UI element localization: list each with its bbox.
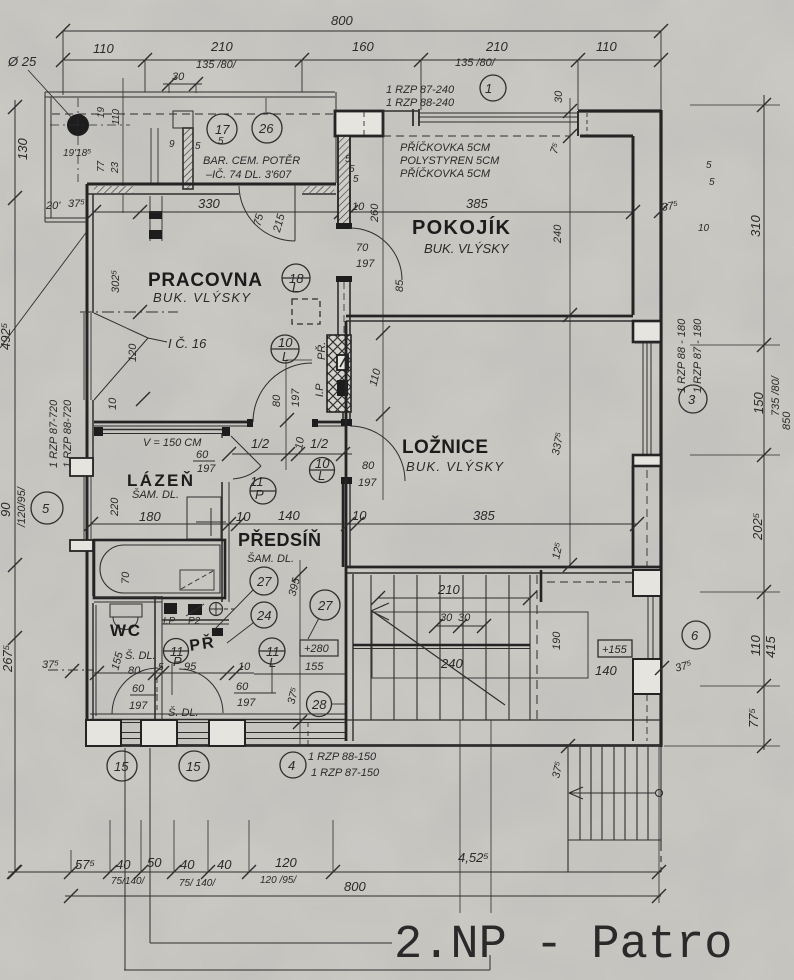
svg-text:80: 80: [128, 665, 141, 677]
svg-text:210: 210: [210, 39, 233, 54]
svg-text:30: 30: [172, 71, 185, 83]
dash-dot line pracovna: [80, 311, 178, 313]
svg-text:LÁZEŇ: LÁZEŇ: [127, 471, 195, 490]
dim line 330 / 385: [87, 205, 640, 219]
svg-text:40: 40: [217, 857, 232, 872]
svg-text:37⁵: 37⁵: [42, 659, 59, 671]
stairwell west wall: [346, 321, 353, 741]
svg-text:PŘÍČKOVKA 5CM: PŘÍČKOVKA 5CM: [400, 141, 491, 154]
svg-text:75/ 140/: 75/ 140/: [179, 878, 216, 889]
svg-text:197: 197: [290, 388, 302, 407]
svg-text:5: 5: [353, 174, 359, 185]
svg-text:160: 160: [352, 39, 374, 54]
svg-text:10: 10: [238, 661, 251, 673]
svg-text:4,52⁵: 4,52⁵: [458, 850, 489, 865]
pracovna door swing: [253, 363, 312, 422]
balcony door swing: [239, 186, 295, 241]
svg-text:40: 40: [180, 857, 195, 872]
svg-text:17: 17: [215, 122, 230, 137]
svg-text:+280: +280: [304, 643, 330, 655]
svg-text:240: 240: [552, 224, 564, 244]
svg-text:5: 5: [218, 136, 224, 147]
loznice south wall: [346, 567, 661, 573]
svg-text:BUK. VLÝSKY: BUK. VLÝSKY: [153, 290, 251, 305]
top dimension line 800: [56, 24, 668, 110]
svg-text:9: 9: [169, 139, 175, 150]
right edge verticals to bottom dims: [658, 747, 660, 903]
wire leader diag bottom-left of balcony: [0, 230, 88, 348]
leader lines to title: [124, 748, 490, 970]
vertical dim ext x=300 (395/37.5): [293, 560, 307, 745]
svg-text:37⁵: 37⁵: [68, 198, 85, 210]
small slab lines left of wall at y220: [45, 217, 87, 219]
svg-text:30: 30: [553, 90, 565, 103]
svg-text:L: L: [282, 349, 289, 364]
svg-text:WC: WC: [110, 621, 142, 640]
top-right section outer wall: [383, 109, 661, 747]
svg-text:BAR. CEM. POTĚR: BAR. CEM. POTĚR: [203, 154, 300, 167]
svg-text:197: 197: [129, 700, 148, 712]
lazen fixtures: washbasin: [187, 497, 226, 539]
WC room walls: [96, 596, 162, 719]
bottom dim line y=872: [7, 820, 666, 879]
svg-text:220: 220: [109, 497, 121, 517]
svg-text:10: 10: [278, 335, 293, 350]
svg-text:Š. DL.: Š. DL.: [168, 706, 199, 719]
landing wall stub: [540, 570, 543, 602]
left vertical dimension line: [8, 100, 22, 879]
svg-text:1/2: 1/2: [251, 436, 270, 451]
svg-text:Ø 25: Ø 25: [7, 54, 37, 69]
stub head: [173, 111, 193, 128]
svg-text:1 RZP 87-720: 1 RZP 87-720: [48, 399, 60, 468]
svg-text:210: 210: [485, 39, 508, 54]
svg-text:155: 155: [305, 661, 324, 673]
interior dim line y=524 (180/10/140/10/385): [84, 517, 644, 531]
svg-text:BUK. VLÝSKY: BUK. VLÝSKY: [424, 241, 510, 256]
svg-text:110: 110: [748, 635, 763, 656]
pokojik partition wall (west, layered): [336, 136, 352, 336]
svg-text:140: 140: [278, 508, 300, 523]
block A top wall piece: [335, 111, 383, 136]
svg-text:LOŽNICE: LOŽNICE: [402, 436, 490, 458]
svg-text:PŘÍČKOVKA 5CM: PŘÍČKOVKA 5CM: [400, 167, 491, 180]
svg-text:10: 10: [352, 201, 365, 213]
svg-text:10: 10: [352, 508, 367, 523]
svg-text:135 /80/: 135 /80/: [455, 57, 496, 69]
svg-text:/120/95/: /120/95/: [16, 486, 28, 528]
entry door swings: [112, 668, 158, 714]
svg-text:L: L: [318, 468, 325, 483]
window in north wall: [418, 112, 578, 114]
top dimension row 110/210/160/210/110: [56, 53, 668, 110]
pracovna window direction diagonals: [94, 313, 148, 338]
bottom inner wall: [90, 714, 661, 723]
svg-text:80: 80: [271, 394, 283, 407]
svg-text:385: 385: [466, 196, 488, 211]
right vertical dimension line: [654, 95, 780, 753]
svg-text:120: 120: [275, 855, 297, 870]
svg-text:77⁵: 77⁵: [746, 708, 761, 728]
svg-text:197: 197: [197, 463, 216, 475]
bathtub: [94, 540, 225, 598]
leader lines from ref circles: [214, 590, 345, 704]
svg-text:260: 260: [369, 203, 381, 223]
svg-text:10: 10: [107, 397, 119, 410]
svg-text:20': 20': [45, 200, 61, 212]
svg-text:90: 90: [0, 502, 13, 517]
svg-text:ŠAM. DL.: ŠAM. DL.: [132, 488, 179, 501]
svg-text:5: 5: [158, 662, 164, 673]
svg-text:80: 80: [362, 460, 375, 472]
svg-text:110: 110: [93, 41, 114, 56]
stair going line with arrow: [371, 603, 505, 705]
svg-text:40: 40: [116, 857, 131, 872]
chimney flue block (hatched): [327, 335, 351, 412]
svg-text:19: 19: [96, 106, 107, 118]
external stair flight: [568, 747, 661, 872]
svg-text:27: 27: [256, 574, 272, 589]
svg-text:POKOJÍK: POKOJÍK: [412, 216, 512, 239]
pokojik/loznice dividing wall: [346, 316, 633, 321]
svg-text:800: 800: [344, 879, 366, 894]
bottom dim line y=896 (800): [64, 889, 666, 903]
svg-text:L: L: [269, 655, 276, 670]
WC toilet: [110, 604, 142, 617]
svg-text:197: 197: [237, 697, 256, 709]
svg-text:I Č. 16: I Č. 16: [168, 336, 207, 351]
svg-text:P: P: [255, 487, 264, 502]
bottom outer wall: [87, 733, 661, 746]
svg-text:15: 15: [186, 759, 201, 774]
svg-text:77: 77: [96, 160, 107, 172]
svg-text:15: 15: [114, 759, 129, 774]
stair mid landing line: [353, 644, 530, 647]
svg-text:1: 1: [485, 81, 492, 96]
svg-text:PRACOVNA: PRACOVNA: [148, 270, 264, 291]
vertical ext line x=383: [382, 111, 384, 500]
svg-text:70: 70: [120, 571, 132, 584]
svg-text:850: 850: [781, 411, 793, 430]
svg-text:50: 50: [147, 855, 162, 870]
svg-text:28: 28: [311, 697, 327, 712]
svg-text:180: 180: [139, 509, 161, 524]
stair east wall window: [633, 570, 661, 741]
svg-text:27: 27: [317, 598, 333, 613]
svg-text:POLYSTYREN 5CM: POLYSTYREN 5CM: [400, 155, 500, 167]
svg-text:5: 5: [706, 160, 712, 171]
pracovna west window: [83, 313, 85, 400]
dim line y=673 (80/5/95/10): [48, 664, 346, 680]
footing piers: [86, 720, 308, 748]
svg-text:I.P: I.P: [163, 616, 176, 627]
stair flight separation dashed: [536, 575, 538, 720]
svg-text:24: 24: [256, 608, 271, 623]
svg-text:492⁵: 492⁵: [0, 322, 13, 350]
svg-text:75/140/: 75/140/: [111, 876, 146, 887]
60/197 fraction bars + leaders: [130, 664, 276, 695]
leader O25: [28, 70, 71, 117]
svg-text:26: 26: [258, 121, 274, 136]
lazen top wall: [94, 427, 230, 436]
svg-text:85: 85: [394, 279, 406, 292]
svg-text:735 /80/: 735 /80/: [770, 375, 782, 416]
PR pantry walls: [162, 620, 229, 636]
circled reference marks: [31, 75, 710, 781]
svg-text:1 RZP 88 - 180: 1 RZP 88 - 180: [676, 318, 688, 393]
mini dim 30 over stub: [162, 77, 203, 93]
svg-text:60: 60: [132, 683, 145, 695]
svg-text:BUK. VLÝSKY: BUK. VLÝSKY: [406, 459, 504, 474]
svg-text:202⁵: 202⁵: [750, 512, 765, 541]
svg-text:190: 190: [551, 631, 563, 650]
svg-text:1 RZP 88-150: 1 RZP 88-150: [308, 751, 377, 763]
balcony dashed line: [52, 113, 336, 115]
column O25 (filled): [67, 114, 89, 136]
dim 30/30 stairs: [429, 619, 491, 633]
dashed square pracovna: [292, 299, 320, 324]
svg-text:150: 150: [751, 392, 766, 414]
balcony partition stub (hatched): [183, 128, 193, 189]
svg-text:1 RZP 87-150: 1 RZP 87-150: [311, 767, 380, 779]
svg-text:110: 110: [111, 109, 122, 125]
svg-text:130: 130: [15, 138, 30, 160]
thin jamb lines in balcony: [150, 128, 152, 183]
svg-text:Š. DL.: Š. DL.: [125, 649, 156, 662]
svg-text:V = 150 CM: V = 150 CM: [143, 437, 202, 449]
svg-text:197: 197: [356, 258, 375, 270]
extension vertical x=123 in balcony: [122, 78, 124, 213]
svg-text:6: 6: [691, 628, 699, 643]
balcony slab outline: [45, 92, 336, 222]
svg-text:1 RZP 87-240: 1 RZP 87-240: [386, 84, 455, 96]
svg-text:120: 120: [127, 343, 139, 362]
svg-text:P2: P2: [188, 616, 201, 627]
pokojik door swing: [350, 228, 402, 280]
west outer wall: [70, 184, 93, 747]
door frame symbols row (I.P / P2): [164, 602, 234, 616]
stairwell opening outline: [372, 612, 588, 678]
svg-text:30: 30: [440, 612, 453, 624]
svg-text:110: 110: [596, 39, 617, 54]
svg-text:140: 140: [595, 663, 617, 678]
svg-text:60: 60: [236, 681, 249, 693]
svg-text:310: 310: [748, 215, 763, 237]
svg-text:5: 5: [195, 141, 201, 152]
svg-text:197: 197: [358, 477, 377, 489]
vertical ext line x=570 with ticks: [563, 98, 577, 572]
lazen/wc dividing wall: [94, 597, 162, 602]
svg-text:5: 5: [42, 501, 50, 516]
svg-text:95: 95: [184, 661, 197, 673]
dim 210 stairs: [371, 591, 537, 605]
svg-text:415: 415: [763, 636, 778, 658]
svg-text:–IČ. 74 DL. 3'607: –IČ. 74 DL. 3'607: [205, 168, 292, 181]
lazen east wall with door: [222, 434, 261, 602]
svg-text:23: 23: [110, 161, 121, 174]
svg-text:70: 70: [356, 242, 369, 254]
svg-text:5: 5: [709, 177, 715, 188]
east wall: pokojik pier / loznice window / piers: [633, 321, 661, 566]
svg-text:19'18⁵: 19'18⁵: [63, 148, 91, 159]
svg-text:4: 4: [288, 758, 295, 773]
svg-text:1 RZP 88-720: 1 RZP 88-720: [62, 399, 74, 468]
svg-text:ŠAM. DL.: ŠAM. DL.: [247, 552, 294, 565]
svg-text:PŘEDSÍŇ: PŘEDSÍŇ: [238, 529, 323, 550]
wall chimney to loznice door: [342, 412, 344, 425]
svg-text:385: 385: [473, 508, 495, 523]
svg-text:1 RZP 88-240: 1 RZP 88-240: [386, 97, 455, 109]
+155 level box: [598, 640, 632, 657]
svg-text:302⁵: 302⁵: [110, 270, 122, 293]
svg-text:240: 240: [440, 656, 463, 671]
svg-text:330: 330: [198, 196, 220, 211]
svg-text:60: 60: [196, 449, 209, 461]
svg-text:210: 210: [437, 582, 460, 597]
svg-text:PŘ.: PŘ.: [315, 342, 328, 360]
svg-text:135 /80/: 135 /80/: [196, 59, 237, 71]
svg-text:267⁵: 267⁵: [0, 644, 15, 673]
stair steps: [371, 575, 530, 720]
svg-text:2.NP - Patro: 2.NP - Patro: [394, 919, 732, 972]
leader to circle 26: [265, 98, 267, 112]
loznice door: [341, 419, 405, 567]
svg-text:30: 30: [458, 612, 471, 624]
external stair going arrow: [569, 787, 663, 799]
lazen west window piers: [70, 458, 93, 476]
svg-text:10: 10: [698, 223, 710, 234]
svg-text:I.P: I.P: [314, 383, 326, 397]
svg-text:57⁵: 57⁵: [75, 857, 95, 872]
svg-text:3: 3: [688, 392, 696, 407]
svg-text:120 /95/: 120 /95/: [260, 875, 297, 886]
svg-text:L: L: [292, 280, 299, 295]
svg-text:P: P: [173, 654, 182, 669]
svg-text:10: 10: [236, 509, 251, 524]
column axis dashes: [77, 98, 79, 182]
svg-text:+155: +155: [602, 644, 628, 656]
dim line 1/2 10 1/2: [222, 447, 352, 461]
svg-text:800: 800: [331, 13, 353, 28]
pracovna south wall with door: [94, 419, 346, 427]
svg-text:1/2: 1/2: [310, 436, 329, 451]
top wall of left section: [87, 184, 336, 194]
door frame element in top wall: [149, 196, 162, 241]
svg-text:1 RZP 87 - 180: 1 RZP 87 - 180: [692, 318, 704, 393]
